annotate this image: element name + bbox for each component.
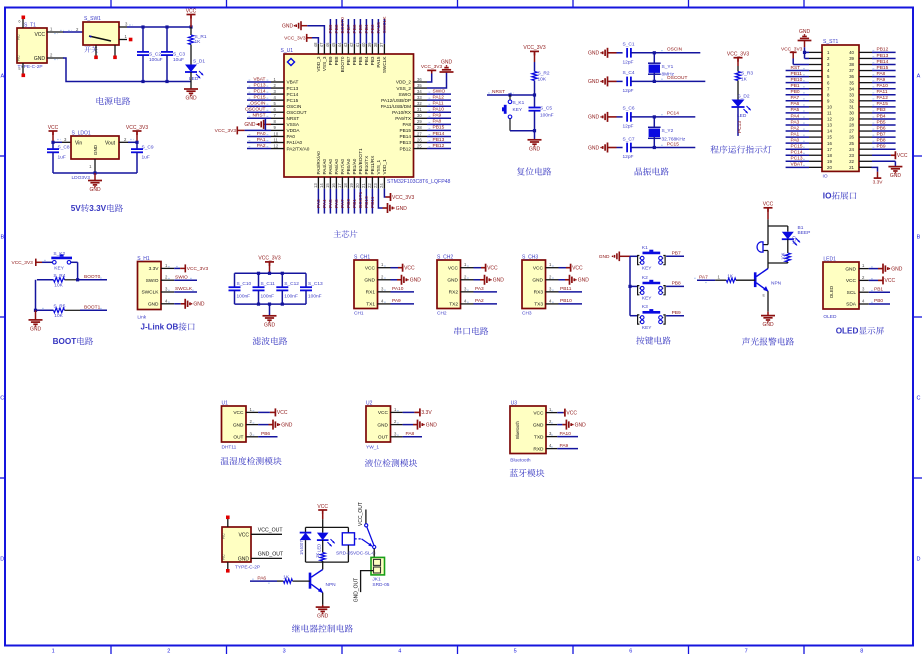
- svg-text:S_C5: S_C5: [540, 105, 552, 111]
- svg-text:RXD: RXD: [533, 446, 544, 452]
- svg-text:PA7/A0: PA7/A0: [340, 159, 345, 175]
- svg-text:VSS_2: VSS_2: [396, 86, 411, 91]
- title 程序运行指示灯: [710, 145, 771, 153]
- LED alarm: [782, 232, 794, 240]
- svg-text:VCC_3V3: VCC_3V3: [126, 125, 148, 131]
- pin U1 32 PA11/USB/DM: [414, 105, 428, 107]
- module U1 DHT11: [222, 406, 247, 442]
- svg-text:GND: GND: [193, 302, 205, 308]
- svg-text:PA11/USB/DM: PA11/USB/DM: [381, 104, 411, 109]
- svg-text:15: 15: [827, 135, 832, 140]
- svg-text:GND: GND: [578, 278, 590, 284]
- capacitor C3 10uF: [166, 27, 168, 52]
- svg-text:OSCOUT: OSCOUT: [287, 110, 307, 115]
- svg-text:100nF: 100nF: [308, 293, 322, 299]
- svg-text:VCC: VCC: [365, 265, 376, 271]
- svg-text:GND: GND: [529, 146, 541, 152]
- net PB6: [258, 436, 277, 438]
- pin T1 top: [22, 18, 24, 28]
- svg-text:GND: GND: [148, 302, 159, 308]
- svg-text:GND: GND: [588, 51, 600, 57]
- svg-text:GND: GND: [588, 115, 600, 121]
- pin ST1 39: [859, 57, 872, 59]
- pin ST1 11: [809, 112, 822, 114]
- connector T1 TYPE-C-2P: [17, 28, 47, 63]
- ground S_C1: [608, 52, 617, 54]
- wire net RST: [786, 70, 809, 72]
- svg-text:PA9: PA9: [560, 443, 569, 449]
- wire T1 VCC to switch: [63, 31, 83, 33]
- svg-text:S_C6: S_C6: [623, 106, 635, 112]
- wire net PA4: [323, 189, 325, 214]
- svg-text:1K: 1K: [727, 274, 734, 280]
- svg-text:VCC_3V3: VCC_3V3: [421, 64, 443, 70]
- wire net PB1: [353, 189, 355, 214]
- pin ST1 12: [809, 118, 822, 120]
- pin U1 31 PA10/RX: [414, 111, 428, 113]
- pin U1 2 GND: [246, 424, 258, 426]
- pin ST1 22: [859, 160, 872, 162]
- svg-text:19: 19: [349, 183, 354, 188]
- pin ST1 37: [859, 70, 872, 72]
- svg-text:PA10: PA10: [392, 286, 404, 292]
- wire net PA5: [786, 112, 809, 114]
- ground LDO: [94, 173, 96, 181]
- svg-text:PC15: PC15: [287, 98, 299, 103]
- svg-text:GND: GND: [377, 422, 388, 428]
- svg-text:PB12: PB12: [877, 47, 889, 53]
- svg-text:SWCLK: SWCLK: [382, 16, 388, 34]
- svg-text:Vin: Vin: [75, 140, 82, 146]
- svg-text:B: B: [0, 235, 4, 241]
- transistor Q1 NPN: [754, 272, 757, 287]
- wire net PB5: [872, 124, 896, 126]
- svg-text:PA6/A0: PA6/A0: [334, 159, 339, 175]
- pin H1 2 SWIO: [161, 279, 174, 281]
- svg-text:PB10/TX: PB10/TX: [364, 155, 369, 175]
- resistor R1 1K: [190, 27, 192, 35]
- svg-text:GND: GND: [890, 173, 902, 179]
- svg-text:VCC_3V3: VCC_3V3: [523, 45, 545, 51]
- svg-text:OLED: OLED: [823, 314, 837, 320]
- net PB8: [666, 285, 684, 287]
- svg-text:GND: GND: [599, 254, 610, 260]
- svg-text:S_R3: S_R3: [741, 71, 753, 77]
- pin ST1 19: [809, 160, 822, 162]
- svg-text:19: 19: [827, 159, 832, 164]
- svg-text:16: 16: [827, 141, 832, 146]
- wire net PB4: [365, 19, 367, 44]
- pin U3 1 VCC: [546, 412, 557, 414]
- svg-text:GND: GND: [426, 422, 438, 428]
- svg-text:PB3: PB3: [370, 24, 376, 33]
- net PA9 bluetooth: [557, 448, 578, 450]
- svg-text:PB3: PB3: [370, 56, 375, 65]
- crystal Y1 8MHz: [653, 51, 656, 54]
- net SWCLK: [174, 291, 197, 293]
- svg-text:S_C3: S_C3: [173, 52, 185, 58]
- svg-text:VCC: VCC: [533, 265, 544, 271]
- power VCC OLED: [869, 279, 878, 281]
- title 继电器控制电路: [292, 624, 353, 632]
- svg-text:GND: GND: [34, 56, 46, 62]
- svg-text:PA2: PA2: [257, 143, 266, 149]
- svg-text:SWCLK: SWCLK: [382, 56, 387, 74]
- svg-text:41: 41: [355, 42, 360, 47]
- pin T1 bottom: [22, 63, 24, 74]
- svg-text:GND_OUT: GND_OUT: [258, 552, 284, 558]
- svg-text:1: 1: [52, 649, 55, 654]
- wire net SWIO: [427, 93, 451, 95]
- svg-text:PB10: PB10: [560, 298, 572, 304]
- svg-text:VCC: VCC: [48, 125, 59, 131]
- LED relay: [322, 527, 324, 532]
- svg-text:11: 11: [274, 137, 279, 142]
- svg-text:PC14: PC14: [254, 88, 266, 94]
- pin U1 46 PB9: [329, 44, 331, 54]
- svg-text:15: 15: [325, 183, 330, 188]
- svg-text:GND_OUT: GND_OUT: [353, 578, 359, 602]
- button K2 KEY: [53, 261, 57, 265]
- svg-text:NRST: NRST: [287, 116, 300, 121]
- svg-text:PA5: PA5: [328, 199, 334, 208]
- svg-text:A: A: [0, 74, 4, 80]
- svg-text:PA9: PA9: [392, 298, 401, 304]
- svg-text:30: 30: [849, 111, 854, 116]
- svg-text:OSCIN: OSCIN: [250, 101, 266, 107]
- svg-text:VCC_3V3: VCC_3V3: [781, 46, 803, 52]
- pin S_CH1 2 GND: [378, 279, 391, 281]
- svg-text:10K: 10K: [54, 313, 63, 319]
- svg-text:25: 25: [849, 141, 854, 146]
- svg-text:S_K2: S_K2: [53, 251, 65, 257]
- capacitor S_C6 12pF: [617, 116, 623, 118]
- svg-text:10K: 10K: [54, 283, 63, 289]
- svg-text:VCC: VCC: [897, 153, 908, 159]
- ground boot: [35, 310, 37, 320]
- svg-text:GND: GND: [93, 144, 98, 155]
- svg-text:PA11: PA11: [433, 101, 444, 107]
- pin U1 45 PB8: [335, 44, 337, 54]
- pin ST1 17: [809, 148, 822, 150]
- svg-text:GND: GND: [317, 614, 329, 620]
- svg-text:PB0: PB0: [874, 298, 883, 304]
- pin U1 30 PA9/TX: [414, 117, 428, 119]
- wire net NRST: [247, 117, 271, 119]
- svg-text:GND: GND: [533, 422, 544, 428]
- power VCC_3V3 VDD_2: [427, 74, 432, 83]
- title 串口电路: [454, 327, 488, 335]
- pin LED1 1 GND: [859, 268, 869, 270]
- svg-text:GND: GND: [244, 122, 256, 128]
- svg-text:A: A: [917, 74, 921, 80]
- svg-text:24: 24: [379, 183, 384, 188]
- svg-text:S_CH1: S_CH1: [354, 254, 370, 260]
- wire net PB14: [427, 135, 451, 137]
- svg-text:PB1: PB1: [791, 83, 800, 89]
- svg-text:39: 39: [367, 42, 372, 47]
- capacitor C9 1uF: [136, 142, 138, 149]
- pin ST1 1: [809, 51, 822, 53]
- wire JK1 GND_OUT: [361, 571, 374, 593]
- resistor alarm 10K: [787, 239, 789, 253]
- net GND_OUT: [251, 557, 282, 559]
- svg-text:S_CH3: S_CH3: [522, 254, 538, 260]
- pin ST1 27: [859, 130, 872, 132]
- svg-text:KEY: KEY: [642, 325, 652, 331]
- wire net OSCIN: [247, 105, 271, 107]
- svg-text:PB4: PB4: [364, 56, 369, 65]
- svg-text:VBAT: VBAT: [791, 162, 803, 168]
- svg-text:VCC: VCC: [233, 410, 244, 416]
- title 主芯片: [334, 230, 358, 238]
- svg-text:PB7: PB7: [346, 24, 352, 33]
- wire net PA0: [786, 142, 809, 144]
- pin SW1 bottom 4: [95, 45, 97, 56]
- svg-text:IO: IO: [823, 174, 828, 180]
- svg-text:PC14: PC14: [791, 150, 803, 156]
- wire keys vertical: [629, 256, 631, 315]
- svg-text:STM32F103C8T6_LQFP48: STM32F103C8T6_LQFP48: [387, 179, 451, 185]
- svg-text:PA15: PA15: [877, 101, 889, 107]
- svg-text:PA2/TX/A0: PA2/TX/A0: [287, 146, 310, 151]
- net PA10: [391, 291, 415, 293]
- svg-text:46: 46: [325, 42, 330, 47]
- wire net OSCOUT: [654, 80, 705, 82]
- buzzer B1 BEEP: [767, 226, 769, 245]
- svg-text:D: D: [0, 557, 4, 563]
- svg-text:VCC_3V3: VCC_3V3: [727, 52, 749, 58]
- pin U1 5 OSCIN: [271, 105, 284, 107]
- svg-text:TYPE-C-2P: TYPE-C-2P: [18, 64, 43, 70]
- svg-text:22: 22: [367, 183, 372, 188]
- wire Vout to C9: [128, 141, 137, 143]
- pin U1 42 PB6: [353, 44, 355, 54]
- svg-text:PC13: PC13: [737, 121, 743, 133]
- svg-text:12pF: 12pF: [623, 59, 634, 65]
- capacitor S_C1 12pF: [617, 52, 623, 54]
- net PA2: [474, 303, 498, 305]
- svg-text:C: C: [0, 396, 4, 402]
- pin ST1 15: [809, 136, 822, 138]
- pin S_CH1 3 RX1: [378, 291, 391, 293]
- wire net PC14: [654, 116, 695, 118]
- svg-text:S_U1: S_U1: [281, 48, 294, 54]
- wire relay top rail: [306, 526, 349, 528]
- svg-text:10K: 10K: [781, 252, 786, 260]
- wire net PB8: [335, 19, 337, 44]
- power VCC alarm: [764, 207, 773, 209]
- svg-text:PA9: PA9: [433, 113, 442, 119]
- regulator LDO1 LDO3V3: [71, 136, 119, 159]
- svg-text:VCC: VCC: [186, 8, 197, 14]
- svg-text:S_Y1: S_Y1: [662, 64, 674, 70]
- capacitor S_C13 100nF: [305, 273, 307, 287]
- pin U1 26 PB13: [414, 142, 428, 144]
- pin LED1 4 SDA: [859, 303, 869, 305]
- svg-text:J-Link OB: J-Link OB: [141, 322, 179, 331]
- button K1 KEY: [508, 93, 511, 96]
- ground VSS_2: [427, 73, 447, 89]
- svg-text:U1: U1: [222, 400, 229, 406]
- svg-text:TX2: TX2: [449, 302, 458, 308]
- pin U1 9 VDDA: [271, 129, 284, 131]
- wire to R2: [534, 62, 536, 72]
- pin ST1 34: [859, 88, 872, 90]
- svg-text:OUT: OUT: [233, 435, 243, 441]
- svg-text:39: 39: [849, 56, 854, 61]
- svg-text:GND: GND: [364, 277, 375, 283]
- svg-text:VCC_OUT: VCC_OUT: [258, 528, 284, 534]
- pin S_CH3 1 VCC: [546, 267, 559, 269]
- wire net PA8: [427, 123, 451, 125]
- svg-text:12: 12: [827, 117, 832, 122]
- pin U2 3 OUT: [391, 436, 403, 438]
- pin U1 14 PA4/A0: [323, 177, 325, 189]
- wire alarm bottom rail: [768, 262, 788, 264]
- connector ST1 IO header: [822, 45, 859, 171]
- svg-text:PA1: PA1: [791, 131, 800, 137]
- title 复位电路: [517, 167, 551, 175]
- svg-text:VCC: VCC: [487, 266, 498, 272]
- pin ST1 14: [809, 130, 822, 132]
- svg-text:PA3: PA3: [475, 286, 484, 292]
- svg-text:PB15: PB15: [433, 125, 445, 131]
- svg-text:PB2/BOOT1: PB2/BOOT1: [358, 148, 363, 174]
- svg-text:PB11: PB11: [560, 286, 572, 292]
- wire net PA6: [786, 106, 809, 108]
- svg-text:PA10: PA10: [560, 431, 572, 437]
- pin U1 8 VSSA: [271, 123, 284, 125]
- power VCC_3V3 filter: [265, 261, 274, 263]
- svg-text:S_Y2: S_Y2: [662, 128, 674, 134]
- svg-text:14: 14: [319, 183, 324, 188]
- svg-text:GND: GND: [588, 145, 600, 151]
- svg-text:20: 20: [355, 183, 360, 188]
- pin U1 2 PC13: [271, 87, 284, 89]
- svg-text:S_C1: S_C1: [623, 42, 635, 48]
- wire net PB9: [329, 19, 331, 44]
- svg-text:6: 6: [629, 649, 632, 654]
- svg-text:VCC_3V3: VCC_3V3: [12, 260, 34, 266]
- svg-text:PA4: PA4: [791, 113, 800, 119]
- wire net PC15: [786, 148, 809, 150]
- display LED1 OLED: [823, 262, 859, 309]
- svg-text:33: 33: [849, 92, 854, 97]
- svg-text:4: 4: [398, 649, 401, 654]
- pin U1 44 BOOT0: [341, 44, 343, 54]
- net PB7: [666, 255, 684, 257]
- wire net PB5: [359, 19, 361, 44]
- module U3 Bluetooth: [510, 406, 546, 454]
- svg-text:33: 33: [417, 95, 422, 100]
- pin U1 3 PC14: [271, 93, 284, 95]
- svg-text:BOOT1: BOOT1: [84, 305, 101, 311]
- wire net PB8: [872, 142, 896, 144]
- wire net PC13: [737, 107, 739, 136]
- wire net OSCIN: [654, 52, 700, 54]
- power VCC_3V3 jlink: [174, 267, 180, 269]
- svg-text:PB12: PB12: [400, 146, 412, 151]
- svg-text:PC15: PC15: [254, 94, 266, 100]
- wire net PC15: [247, 99, 271, 101]
- svg-text:PA2: PA2: [475, 298, 484, 304]
- svg-text:GND: GND: [588, 79, 600, 85]
- svg-text:100nF: 100nF: [237, 293, 251, 299]
- svg-text:PB8: PB8: [672, 281, 681, 287]
- svg-text:100nF: 100nF: [284, 293, 298, 299]
- svg-text:S_R2: S_R2: [538, 71, 550, 77]
- ground IO pin22: [872, 160, 895, 162]
- svg-text:PC13: PC13: [287, 86, 299, 91]
- pin ST1 6: [809, 82, 822, 84]
- svg-text:Vout: Vout: [105, 140, 116, 146]
- svg-text:S_T1: S_T1: [24, 23, 36, 29]
- svg-text:VDD_2: VDD_2: [396, 80, 412, 85]
- svg-text:PB9: PB9: [328, 24, 334, 33]
- wire net PB13: [427, 142, 451, 144]
- svg-text:PC14: PC14: [287, 92, 299, 97]
- svg-text:PC13: PC13: [254, 82, 266, 88]
- mcu U1 STM32F103C8T6_LQFP48: [284, 54, 414, 177]
- ground power circuit: [184, 88, 198, 90]
- svg-text:100nF: 100nF: [261, 293, 275, 299]
- capacitor C8 1uF: [52, 142, 54, 149]
- net PA7 base: [697, 279, 715, 281]
- svg-text:OSCIN: OSCIN: [667, 47, 683, 53]
- wire net PA12: [427, 99, 451, 101]
- svg-text:PA0: PA0: [257, 131, 266, 137]
- pin U1 6 OSCOUT: [271, 111, 284, 113]
- svg-text:GND: GND: [441, 60, 453, 66]
- svg-text:PB11/RX: PB11/RX: [370, 155, 375, 175]
- title 蓝牙模块: [510, 469, 545, 477]
- svg-text:12pF: 12pF: [623, 88, 634, 94]
- svg-text:SRD-05VDC-SL-C: SRD-05VDC-SL-C: [336, 551, 376, 557]
- capacitor S_C7 12pF: [617, 147, 623, 149]
- svg-text:BEEP: BEEP: [798, 230, 811, 236]
- svg-text:PB12: PB12: [433, 143, 445, 149]
- pin ST1 10: [809, 106, 822, 108]
- svg-text:27: 27: [417, 131, 422, 136]
- wire net PB12: [427, 148, 451, 150]
- button K1 KEY: [630, 255, 638, 257]
- net BOOT0: [78, 279, 107, 281]
- svg-text:PB1: PB1: [874, 286, 883, 292]
- svg-text:18: 18: [827, 153, 832, 158]
- svg-text:10: 10: [827, 104, 832, 109]
- svg-text:PB6: PB6: [352, 56, 357, 65]
- svg-text:BOOT: BOOT: [53, 337, 77, 346]
- pin U1 7 NRST: [271, 117, 284, 119]
- net BOOT1: [80, 309, 107, 311]
- svg-text:GND: GND: [30, 326, 42, 332]
- ground S_C4: [608, 80, 617, 82]
- svg-text:KEY: KEY: [54, 266, 64, 272]
- ground bluetooth: [557, 424, 562, 426]
- svg-text:25: 25: [417, 143, 422, 148]
- svg-text:VCC_3V3: VCC_3V3: [215, 128, 237, 134]
- wire net PB10: [786, 82, 809, 84]
- pin ST1 2: [809, 57, 822, 59]
- wire net PB0: [347, 189, 349, 214]
- switch SW1: [83, 22, 119, 45]
- pin S_CH3 2 GND: [546, 279, 559, 281]
- wire net PA2: [247, 148, 271, 150]
- svg-text:PB9: PB9: [328, 56, 333, 65]
- pin H1 4 GND: [161, 303, 174, 305]
- title 电源电路: [97, 97, 131, 105]
